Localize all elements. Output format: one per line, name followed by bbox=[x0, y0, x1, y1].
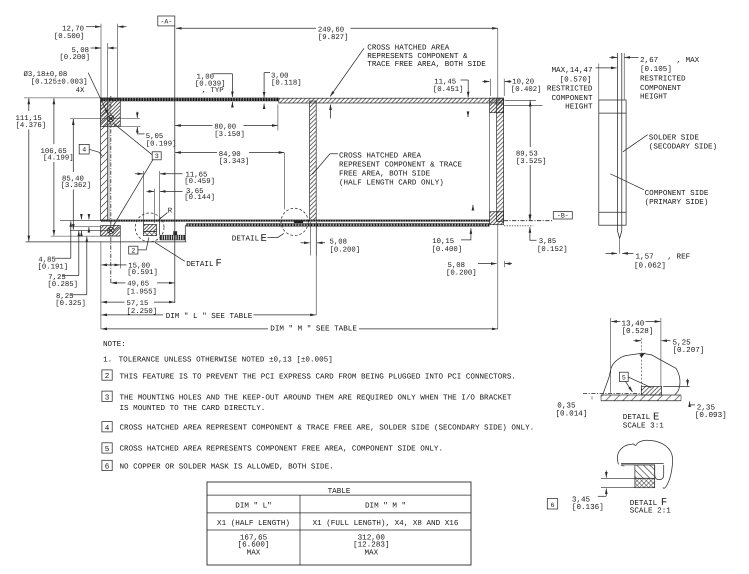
dimension 13,40 bbox=[611, 321, 620, 323]
DETAIL F VIEW bbox=[547, 440, 672, 515]
notch left wall bbox=[143, 221, 145, 224]
notch radius label R bbox=[159, 207, 173, 220]
svg-text:TABLE: TABLE bbox=[328, 488, 351, 496]
upper cross hatched area callout bbox=[330, 44, 486, 97]
dimension 10,15 bbox=[432, 111, 473, 254]
detail E ext line right bbox=[660, 318, 662, 386]
svg-text:REPRESENTS COMPONENT &: REPRESENTS COMPONENT & bbox=[367, 52, 468, 61]
dimension 11,45 bbox=[433, 79, 491, 98]
svg-text:[4.199]: [4.199] bbox=[43, 154, 74, 163]
svg-text:[0.402]: [0.402] bbox=[511, 85, 542, 94]
note 2 bbox=[102, 370, 516, 382]
svg-text:NOTE:: NOTE: bbox=[103, 340, 126, 349]
svg-text:[0.118]: [0.118] bbox=[271, 79, 302, 88]
0,35 step tick bbox=[591, 396, 593, 399]
detail F key cross-hatch block bbox=[635, 478, 655, 487]
bottom-right corner keepout block bbox=[490, 212, 504, 225]
detail F circle bbox=[135, 213, 164, 242]
side view divider top bbox=[599, 112, 626, 114]
svg-text:5,08: 5,08 bbox=[448, 262, 466, 270]
svg-text:[0.152]: [0.152] bbox=[537, 245, 568, 254]
svg-text:[0.136]: [0.136] bbox=[572, 503, 604, 512]
dimension 106,65 bbox=[41, 98, 74, 235]
svg-text:CROSS HATCHED AREA REPRESENT C: CROSS HATCHED AREA REPRESENT COMPONENT &… bbox=[120, 423, 535, 432]
corner blocks boundary line bbox=[489, 113, 491, 212]
dimension 3,65 bbox=[147, 188, 215, 223]
comb right edge bbox=[184, 225, 186, 242]
svg-text:3,85: 3,85 bbox=[539, 238, 557, 246]
svg-text:-A-: -A- bbox=[160, 19, 172, 26]
card left edge lower extension bbox=[100, 242, 102, 329]
dimension 49,65 bbox=[111, 280, 174, 296]
svg-text:DIM " L " SEE TABLE: DIM " L " SEE TABLE bbox=[166, 312, 253, 321]
bracket strip inner edge line bbox=[108, 98, 110, 220]
restricted zone extension bbox=[623, 53, 625, 100]
svg-text:[1.955]: [1.955] bbox=[126, 287, 157, 296]
side view PCB bbox=[617, 53, 621, 254]
dimension 84,90 bbox=[175, 151, 284, 210]
svg-text:SOLDER SIDE: SOLDER SIDE bbox=[649, 133, 700, 142]
svg-text:THIS FEATURE IS TO PREVENT THE: THIS FEATURE IS TO PREVENT THE PCI EXPRE… bbox=[120, 373, 516, 382]
note 3 bbox=[102, 391, 512, 413]
svg-text:[9.827]: [9.827] bbox=[318, 33, 349, 42]
notch right wall bbox=[159, 221, 161, 235]
svg-text:SCALE 3:1: SCALE 3:1 bbox=[623, 422, 664, 431]
svg-text:[0.093]: [0.093] bbox=[695, 411, 727, 420]
svg-text:0,35: 0,35 bbox=[557, 401, 576, 410]
dimension 8,25 bbox=[55, 237, 87, 308]
dimension 3,00 bbox=[264, 72, 302, 109]
svg-text:DETAIL: DETAIL bbox=[232, 236, 260, 244]
top mounting hole keepout block bbox=[101, 98, 121, 126]
svg-text:1.: 1. bbox=[103, 357, 112, 365]
svg-text:[6.600]: [6.600] bbox=[238, 541, 270, 550]
svg-text:[0.125±0.003]: [0.125±0.003] bbox=[31, 78, 88, 87]
svg-text:E: E bbox=[261, 233, 267, 245]
dimension 89,53 bbox=[505, 100, 547, 220]
svg-text:CROSS HATCHED AREA REPRESENTS: CROSS HATCHED AREA REPRESENTS COMPONENT … bbox=[120, 445, 444, 454]
svg-text:49,65: 49,65 bbox=[127, 280, 149, 288]
svg-text:3: 3 bbox=[155, 153, 159, 160]
svg-text:57,15: 57,15 bbox=[127, 300, 149, 308]
svg-text:[0.200]: [0.200] bbox=[330, 245, 361, 254]
dimension 80,00 bbox=[175, 105, 278, 140]
svg-text:[12.283]: [12.283] bbox=[353, 541, 389, 550]
datum A flag bbox=[158, 16, 175, 303]
dimension 3,45 bbox=[601, 477, 635, 479]
dimension DIM M bbox=[101, 225, 497, 334]
key notch keepout block bbox=[144, 224, 157, 231]
profile ridge arrowhead bbox=[639, 353, 645, 358]
svg-text:RESTRICTED: RESTRICTED bbox=[640, 75, 686, 84]
side view envelope bbox=[599, 100, 626, 225]
bracket hole centerline bbox=[110, 96, 112, 283]
dimension 111,15 bbox=[16, 98, 101, 241]
svg-text:1,57 , REF: 1,57 , REF bbox=[636, 253, 691, 261]
note flag 5 bbox=[619, 372, 628, 381]
DETAIL E VIEW bbox=[556, 318, 727, 431]
svg-text:5,08: 5,08 bbox=[330, 239, 348, 247]
svg-text:4: 4 bbox=[105, 425, 110, 433]
svg-text:4: 4 bbox=[82, 147, 86, 154]
svg-text:2,67 , MAX: 2,67 , MAX bbox=[640, 56, 700, 65]
svg-text:DIM " M ": DIM " M " bbox=[365, 501, 406, 510]
svg-text:R: R bbox=[168, 207, 173, 215]
svg-text:6: 6 bbox=[105, 463, 110, 472]
comb bottom line bbox=[26, 241, 187, 243]
svg-text:[0.400]: [0.400] bbox=[432, 245, 463, 254]
edge finger comb bbox=[160, 231, 186, 240]
svg-text:DIM " L": DIM " L" bbox=[235, 501, 271, 510]
svg-text:[0.528]: [0.528] bbox=[622, 327, 654, 336]
svg-text:IS MOUNTED TO THE CARD DIRECTL: IS MOUNTED TO THE CARD DIRECTLY. bbox=[120, 404, 266, 413]
svg-text:[0.200]: [0.200] bbox=[59, 53, 90, 62]
svg-text:MAX: MAX bbox=[364, 549, 378, 557]
svg-text:[0.200]: [0.200] bbox=[446, 269, 477, 278]
bottom mounting hole keepout block bbox=[101, 226, 121, 237]
note 4 bbox=[102, 422, 534, 433]
card top edge strip hatched right section bbox=[279, 98, 504, 103]
svg-text:[0.459]: [0.459] bbox=[184, 177, 215, 186]
svg-text:(HALF LENGTH CARD ONLY): (HALF LENGTH CARD ONLY) bbox=[339, 179, 444, 188]
svg-text:10,15: 10,15 bbox=[432, 238, 454, 246]
svg-text:(PRIMARY SIDE): (PRIMARY SIDE) bbox=[645, 198, 709, 207]
svg-text:[0.285]: [0.285] bbox=[47, 280, 78, 289]
svg-text:DETAIL: DETAIL bbox=[186, 261, 214, 269]
svg-text:[0.570]: [0.570] bbox=[560, 75, 592, 84]
dimension 249,60 bbox=[176, 27, 498, 98]
svg-text:2: 2 bbox=[131, 247, 135, 254]
strip thickness arrow bbox=[330, 105, 332, 119]
bracket step line 4,85 bbox=[74, 225, 101, 227]
svg-text:COMPONENT SIDE: COMPONENT SIDE bbox=[645, 189, 709, 198]
svg-text:[3.362]: [3.362] bbox=[61, 181, 92, 190]
note 1 bbox=[103, 356, 333, 365]
card bottom edge left extension bbox=[60, 220, 101, 222]
lower cross hatched area callout bbox=[312, 152, 462, 188]
dimension 5,25 bbox=[641, 338, 643, 390]
block bottom extension line bbox=[51, 235, 121, 237]
svg-text:[4.376]: [4.376] bbox=[16, 121, 47, 130]
dimension DIM L bbox=[101, 222, 316, 321]
side view divider bottom bbox=[599, 211, 626, 213]
svg-text:[0.144]: [0.144] bbox=[184, 193, 215, 202]
svg-text:-B-: -B- bbox=[557, 213, 569, 220]
dimension 1,57 REF bbox=[606, 253, 691, 270]
key notch cross-hatch block bbox=[144, 231, 157, 235]
svg-text:[0.451]: [0.451] bbox=[433, 85, 464, 94]
svg-text:4X: 4X bbox=[76, 87, 85, 95]
dimension 4,85 bbox=[38, 214, 89, 272]
hole diameter callout bbox=[24, 71, 109, 115]
svg-text:5: 5 bbox=[105, 446, 110, 454]
svg-text:REPRESENT COMPONENT & TRACE: REPRESENT COMPONENT & TRACE bbox=[339, 161, 462, 170]
svg-text:HEIGHT: HEIGHT bbox=[565, 102, 593, 111]
svg-text:[0.062]: [0.062] bbox=[634, 261, 666, 270]
svg-text:X1 (HALF LENGTH): X1 (HALF LENGTH) bbox=[217, 519, 290, 528]
table bbox=[207, 482, 471, 565]
top block corner chamfer bbox=[114, 121, 120, 126]
svg-text:DIM " M " SEE TABLE: DIM " M " SEE TABLE bbox=[270, 325, 357, 334]
svg-text:X1 (FULL LENGTH), X4, X8 AND X: X1 (FULL LENGTH), X4, X8 AND X16 bbox=[313, 519, 459, 528]
svg-text:[0.105]: [0.105] bbox=[640, 65, 672, 74]
svg-text:FREE AREA, BOTH SIDE: FREE AREA, BOTH SIDE bbox=[339, 170, 431, 179]
dimension 5,08 top left bbox=[59, 47, 116, 62]
dimension 7,25 bbox=[47, 214, 81, 289]
dimension 2,35 bbox=[687, 379, 689, 386]
svg-text:HEIGHT: HEIGHT bbox=[640, 93, 668, 102]
dimension 1,00 TYP bbox=[195, 73, 233, 107]
svg-text:[0.591]: [0.591] bbox=[127, 268, 158, 277]
solder side callout bbox=[623, 133, 717, 152]
note flag 6 bbox=[547, 499, 557, 509]
detail E label bbox=[232, 233, 284, 245]
detail E contact pad hatch bbox=[641, 386, 661, 395]
component side callout bbox=[610, 174, 709, 207]
svg-text:[0.199]: [0.199] bbox=[146, 139, 177, 148]
svg-text:5: 5 bbox=[622, 375, 626, 382]
note 6 bbox=[102, 460, 334, 471]
svg-text:SCALE 2:1: SCALE 2:1 bbox=[630, 506, 671, 515]
svg-text:2: 2 bbox=[105, 372, 110, 381]
svg-text:[0.207]: [0.207] bbox=[673, 346, 705, 355]
detail E contact bump bbox=[294, 220, 303, 223]
I/O bracket strip bbox=[101, 98, 108, 220]
svg-text:[3.343]: [3.343] bbox=[219, 157, 250, 166]
dimension 5,05 bbox=[120, 112, 176, 149]
dimension 10,20 bbox=[504, 79, 541, 97]
edge finger contact band bbox=[186, 223, 533, 226]
dimension 57,15 bbox=[101, 300, 174, 316]
svg-text:CROSS HATCHED AREA: CROSS HATCHED AREA bbox=[339, 152, 421, 161]
svg-text:[0.325]: [0.325] bbox=[55, 299, 86, 308]
svg-text:, TYP: , TYP bbox=[202, 87, 224, 95]
dimension 15,00 bbox=[101, 237, 157, 278]
restricted height callout left bbox=[547, 67, 617, 111]
dimension 3,85 bbox=[530, 214, 568, 254]
card bottom edge strip bbox=[101, 220, 490, 222]
svg-text:DETAIL: DETAIL bbox=[623, 414, 651, 422]
half length card boundary strip bbox=[310, 101, 317, 220]
corner block leader bbox=[504, 104, 543, 106]
svg-text:COMPONENT: COMPONENT bbox=[640, 84, 681, 93]
detail F shelf lines bbox=[621, 463, 664, 465]
svg-text:3: 3 bbox=[105, 393, 110, 402]
detail E circle bbox=[281, 208, 308, 235]
svg-text:TRACE FREE AREA, BOTH SIDE: TRACE FREE AREA, BOTH SIDE bbox=[367, 60, 486, 69]
detail F profile outline bbox=[617, 440, 672, 488]
detail E ext line left bbox=[610, 318, 612, 393]
note flag 4 bbox=[79, 144, 102, 156]
svg-text:COMPONENT: COMPONENT bbox=[551, 94, 592, 103]
dimension 85,40 bbox=[61, 119, 92, 230]
svg-text:THE MOUNTING HOLES AND THE KEE: THE MOUNTING HOLES AND THE KEEP-OUT AROU… bbox=[120, 393, 512, 402]
svg-text:6: 6 bbox=[551, 502, 555, 509]
svg-text:[0.500]: [0.500] bbox=[54, 32, 85, 41]
svg-text:[3.525]: [3.525] bbox=[516, 157, 547, 166]
top mounting hole bbox=[70, 116, 140, 122]
detail F slot bbox=[655, 465, 664, 480]
svg-text:RESTRICTED: RESTRICTED bbox=[547, 85, 593, 94]
detail F key hatch block bbox=[635, 465, 655, 478]
svg-text:[3.150]: [3.150] bbox=[214, 130, 245, 139]
top-right corner keepout block bbox=[490, 98, 504, 113]
card top edge strip thin left section bbox=[101, 98, 279, 101]
dimension 2,67 bbox=[610, 56, 700, 102]
svg-text:TOLERANCE UNLESS OTHERWISE NOT: TOLERANCE UNLESS OTHERWISE NOTED ±0,13 [… bbox=[119, 356, 333, 365]
detail E profile outline bbox=[603, 353, 680, 395]
bottom block corner chamfer bbox=[114, 227, 120, 232]
svg-text:[0.014]: [0.014] bbox=[556, 409, 588, 418]
svg-text:MAX,14,47: MAX,14,47 bbox=[551, 67, 592, 75]
max component height extension bbox=[598, 64, 600, 100]
dimension 5,08 half-length strip bbox=[301, 222, 361, 256]
detail F label bbox=[155, 242, 222, 270]
note flag 2 bbox=[129, 237, 149, 254]
svg-text:F: F bbox=[216, 258, 222, 270]
dimension 12,70 bbox=[54, 24, 127, 98]
svg-text:CROSS HATCHED AREA: CROSS HATCHED AREA bbox=[367, 44, 449, 53]
datum B flag bbox=[504, 212, 573, 221]
detail E baseline strip bbox=[601, 395, 681, 400]
svg-text:MAX: MAX bbox=[247, 549, 261, 557]
card right edge strip bbox=[497, 98, 504, 221]
dimension 5,08 bottom right bbox=[446, 261, 512, 278]
bracket step line 7,25 bbox=[70, 229, 111, 231]
svg-text:(SECODARY SIDE): (SECODARY SIDE) bbox=[649, 142, 717, 151]
note 5 bbox=[102, 443, 443, 454]
note flag 3 bbox=[113, 123, 162, 227]
dimension 11,65 bbox=[135, 171, 215, 221]
svg-text:[0.191]: [0.191] bbox=[38, 263, 69, 272]
bottom mounting hole bbox=[108, 227, 114, 233]
svg-text:NO COPPER OR SOLDER MASK IS AL: NO COPPER OR SOLDER MASK IS ALLOWED, BOT… bbox=[120, 463, 334, 472]
